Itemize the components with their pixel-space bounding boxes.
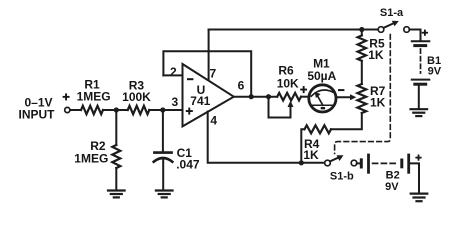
battery B2 cell 2	[402, 155, 409, 172]
R6 wiper arrow	[288, 101, 294, 107]
svg-text:1K: 1K	[303, 148, 319, 162]
B1 internal dashed link	[420, 49, 422, 73]
resistor R1	[81, 106, 103, 114]
svg-text:10K: 10K	[277, 76, 299, 90]
svg-text:S1-b: S1-b	[330, 171, 354, 183]
capacitor C1	[154, 153, 173, 162]
meter bottom chord	[311, 104, 335, 106]
B1 label	[427, 55, 442, 77]
meter plus sign	[300, 86, 307, 93]
B2 plus sign	[415, 155, 421, 161]
R6 wiper return wire	[269, 97, 291, 118]
svg-text:1K: 1K	[368, 48, 384, 62]
op-amp U1 741	[183, 64, 234, 126]
op-amp minus input sign	[187, 78, 193, 80]
R4 value label	[303, 137, 319, 162]
resistor R2	[112, 145, 120, 168]
S1-a arm arrowhead	[392, 21, 399, 27]
R7 value label	[370, 84, 386, 109]
meter needle arrowhead	[315, 92, 321, 98]
wire pin 4 drop	[208, 112, 325, 163]
resistor R5	[358, 35, 366, 60]
wire B2 to ground	[410, 163, 419, 192]
R3 value label	[122, 78, 151, 104]
top supply rail	[209, 29, 379, 31]
op-amp designator U 741	[190, 83, 210, 108]
wire rail to R5	[361, 30, 363, 36]
svg-text:2: 2	[170, 65, 177, 79]
svg-text:50µA: 50µA	[307, 69, 336, 83]
node on rail	[359, 27, 364, 32]
input terminal	[65, 107, 70, 112]
pin 2 label	[170, 65, 177, 79]
meter M1	[309, 85, 336, 112]
input polarity +	[63, 93, 70, 100]
ground under B2	[411, 194, 428, 202]
wire R1 to R3	[103, 109, 128, 111]
battery B1 cell 1	[412, 41, 430, 45]
B2 label	[385, 169, 400, 192]
potentiometer R6	[277, 93, 301, 101]
wire B1 to ground	[418, 86, 420, 108]
node bottom wire	[299, 160, 304, 165]
node junction A	[114, 107, 119, 112]
svg-text:7: 7	[209, 66, 216, 80]
svg-text:4: 4	[210, 113, 217, 127]
meter minus sign	[338, 89, 344, 91]
wire node A down to R2	[115, 110, 117, 145]
battery B1 cell 2	[412, 80, 430, 85]
meter pivot mark	[321, 107, 325, 109]
R5 value label	[368, 36, 385, 61]
svg-text:1K: 1K	[370, 95, 386, 109]
wire R5 to R7	[361, 61, 363, 84]
wire R4 left down to bottom wire	[301, 129, 304, 163]
svg-text:R6: R6	[278, 63, 294, 77]
wire S1-a to battery B1	[409, 30, 420, 40]
wire pin 7 riser	[208, 30, 210, 81]
meter scale arc	[311, 90, 334, 96]
node output feedback	[249, 94, 254, 99]
R6 value label	[277, 63, 299, 90]
pin 4 label	[210, 113, 217, 127]
svg-text:6: 6	[238, 79, 245, 93]
pin 3 label	[172, 95, 179, 109]
wire meter to R7 wiper	[336, 96, 352, 98]
svg-text:1MEG: 1MEG	[77, 90, 111, 104]
B1 plus sign	[422, 30, 428, 36]
svg-text:S1-a: S1-a	[380, 7, 404, 19]
svg-text:9V: 9V	[385, 181, 399, 193]
svg-text:741: 741	[190, 94, 210, 108]
svg-text:.047: .047	[176, 158, 200, 172]
R7 wiper arrowhead	[350, 94, 356, 100]
wire node B down to C1	[162, 110, 164, 151]
ground under C1	[156, 191, 173, 198]
potentiometer R7	[357, 84, 366, 113]
ground under R2	[108, 191, 125, 198]
pin 7 label	[209, 66, 216, 80]
wire input to R1	[70, 109, 81, 111]
feedback wire pin2 to output	[163, 51, 251, 96]
wire R7 down to R4	[331, 113, 362, 129]
svg-text:9V: 9V	[428, 65, 442, 77]
B2 internal dashed link	[373, 162, 398, 164]
R2 value label	[74, 139, 108, 165]
svg-text:3: 3	[172, 95, 179, 109]
wire pin 2 stub	[163, 74, 182, 76]
wire R3 to pin 3	[149, 109, 182, 111]
wire R6 to meter	[301, 96, 309, 98]
meter needle	[317, 95, 323, 105]
switch S1-b	[325, 158, 357, 166]
S1-b label	[330, 171, 354, 183]
pin 6 label	[238, 79, 245, 93]
svg-text:B2: B2	[386, 169, 400, 181]
input label 0-1V INPUT	[19, 95, 56, 121]
wire S1-b to battery B2	[357, 162, 360, 164]
wire R2 to ground	[115, 168, 117, 189]
switch S1-a	[378, 23, 409, 33]
svg-text:1MEG: 1MEG	[74, 151, 108, 165]
node output pot loop	[266, 94, 271, 99]
resistor R4	[305, 125, 332, 133]
ground under B1	[411, 109, 428, 116]
wire C1 to ground	[162, 160, 164, 189]
S1-a label	[380, 7, 404, 19]
node junction B	[160, 107, 165, 112]
S1-b arm arrowhead	[337, 155, 344, 161]
C1 value label	[176, 146, 200, 171]
resistor R3	[128, 106, 150, 114]
meter label M1 50uA	[307, 57, 336, 84]
svg-text:100K: 100K	[122, 90, 151, 104]
output wire pin 6	[234, 96, 277, 98]
battery B2 cell 1	[361, 155, 368, 172]
ganged switch dashed link	[335, 35, 391, 154]
R1 value label	[77, 77, 111, 103]
svg-text:INPUT: INPUT	[19, 108, 56, 122]
op-amp plus input sign	[186, 108, 193, 115]
